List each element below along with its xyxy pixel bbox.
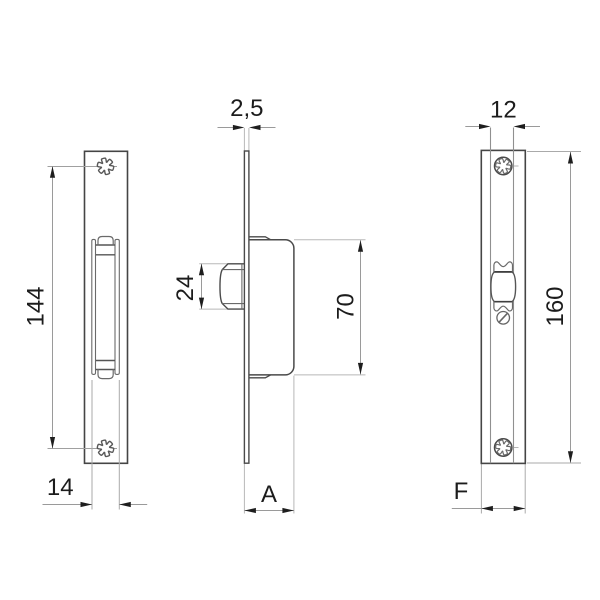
extension line bottom (144): [48, 448, 118, 450]
svg-text:F: F: [454, 478, 469, 505]
roller top dome: [98, 237, 113, 246]
extension lines (2,5) above plate: [243, 128, 245, 152]
dimension 70: [360, 240, 362, 374]
lock body outline: [249, 240, 294, 375]
svg-text:12: 12: [490, 97, 517, 124]
roller latch side view: [220, 264, 244, 309]
dimension 12: [465, 126, 479, 128]
latch collar line: [241, 264, 243, 309]
extension line top (144): [48, 166, 118, 168]
svg-text:144: 144: [23, 286, 50, 326]
roller housing left rail: [92, 239, 96, 374]
extension lines (A): [243, 463, 245, 513]
svg-text:2,5: 2,5: [230, 95, 263, 122]
screw bottom: [495, 439, 512, 456]
dimension 24: [201, 264, 203, 309]
roller crossbar lines: [96, 244, 116, 246]
dimension 160: [570, 152, 572, 463]
roller barrel: [491, 272, 516, 302]
body bottom lip: [249, 375, 271, 378]
extension line left (14): [91, 380, 93, 510]
adjuster screw: [497, 312, 510, 325]
dimension A: [244, 510, 294, 512]
svg-text:160: 160: [542, 286, 569, 326]
svg-text:14: 14: [47, 474, 74, 501]
roller housing right rail: [115, 239, 119, 374]
dimension 14: [43, 504, 93, 506]
screw hole star top: [97, 158, 113, 174]
dimension 144: [52, 167, 54, 449]
svg-text:A: A: [261, 481, 277, 508]
screw hole star bottom: [97, 440, 113, 456]
extension lines (70): [294, 239, 366, 241]
dimension F: [452, 508, 525, 510]
svg-text:70: 70: [333, 293, 360, 320]
roller bottom dome: [98, 369, 113, 379]
countersink lines: [490, 128, 492, 464]
faceplate outline: [481, 150, 525, 463]
extension lines (F): [480, 464, 482, 514]
screw top: [495, 157, 512, 174]
roller cutout: [494, 262, 513, 311]
extension lines (160): [527, 151, 581, 153]
svg-text:24: 24: [172, 275, 199, 302]
latch chamfer lines: [222, 269, 244, 271]
extension line right (14): [118, 380, 120, 510]
faceplate edge-on: [244, 151, 249, 463]
extension lines (24): [199, 263, 228, 265]
faceplate outline: [85, 151, 128, 463]
body top lip: [249, 237, 271, 240]
screw centerline ticks: [514, 165, 519, 167]
dimension 2,5: [218, 127, 235, 129]
